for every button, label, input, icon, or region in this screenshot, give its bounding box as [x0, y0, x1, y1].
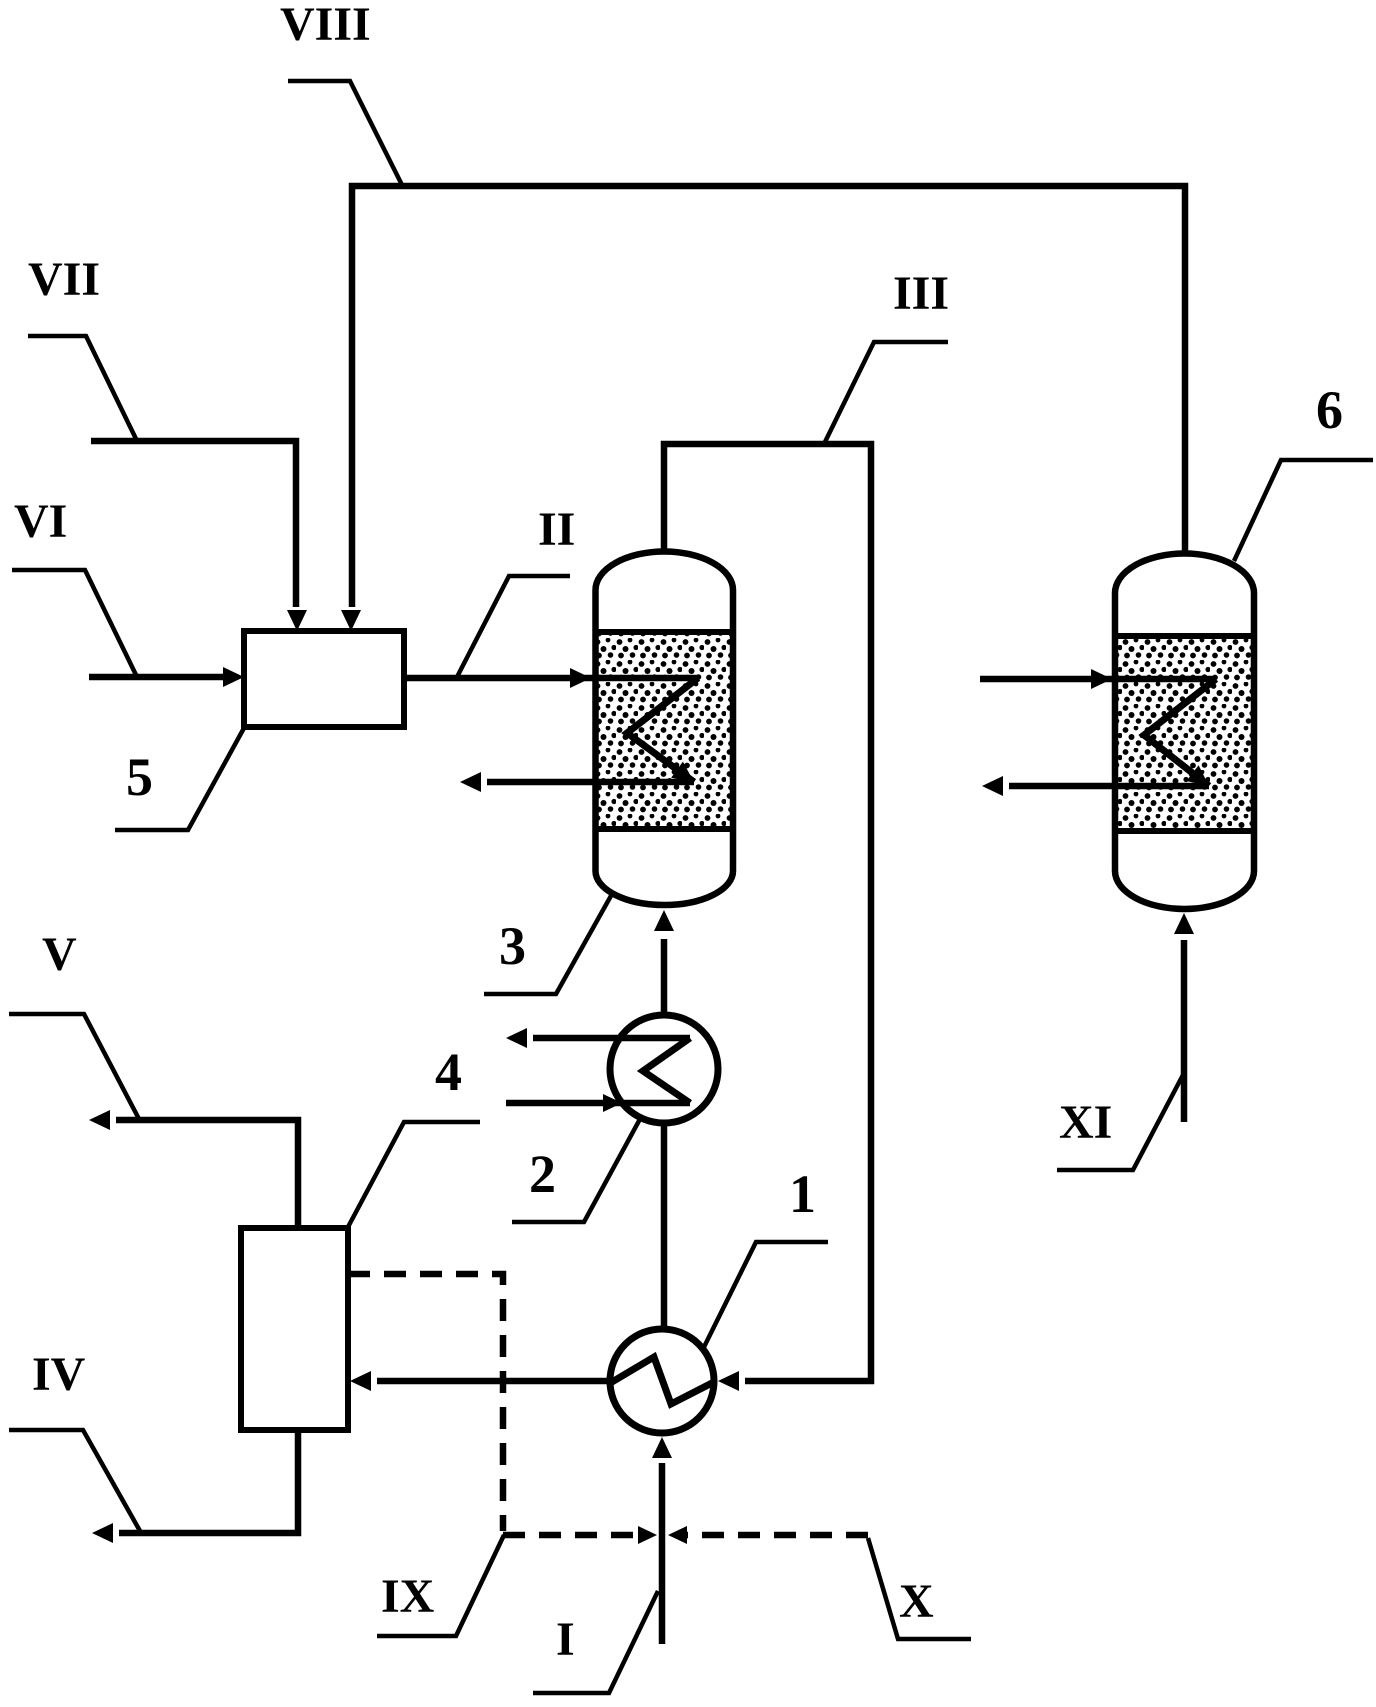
svg-text:VI: VI: [14, 495, 67, 548]
wire II mixer to reactor3: [404, 675, 698, 682]
wire X dashed arrow segment: [686, 1532, 868, 1539]
leader II: [457, 576, 570, 677]
leader 1: [704, 1242, 828, 1347]
arrow VI into box5: [223, 667, 244, 687]
arrow I feed up into HX1: [652, 1437, 672, 1458]
arrow reactor3 outlet left: [460, 772, 481, 792]
svg-text:VII: VII: [28, 253, 100, 306]
wire reactor3 outlet: [487, 779, 694, 786]
reactor U6 vessel: [1115, 554, 1254, 909]
svg-text:4: 4: [435, 1042, 462, 1102]
leader IV: [9, 1430, 140, 1531]
svg-text:IX: IX: [381, 1570, 435, 1623]
svg-text:III: III: [893, 267, 949, 320]
wire IV bottoms line from box4: [119, 1430, 298, 1533]
svg-text:6: 6: [1316, 380, 1343, 440]
arrow HX2 inlet right: [603, 1094, 622, 1112]
svg-text:2: 2: [529, 1144, 556, 1204]
wire VI feed arrow line: [89, 674, 224, 681]
wire III reactor3 top to HX1: [664, 444, 871, 1381]
reactor U3 catalyst bed: [598, 635, 730, 826]
arrow IX dashed right: [638, 1526, 657, 1544]
leader 5: [115, 728, 244, 830]
leader VIII: [288, 81, 402, 185]
reactor U3 internal zigzag: [627, 678, 698, 782]
svg-text:3: 3: [499, 916, 526, 976]
arrow into box4: [350, 1371, 371, 1391]
wire IX dashed arrow segment: [503, 1532, 640, 1539]
arrow reactor3 bottom feed up: [654, 910, 674, 931]
leader 6: [1234, 460, 1373, 561]
wire VII feed line: [91, 441, 296, 607]
wire HX2 bottom inlet: [506, 1100, 690, 1107]
heat exchanger 2: [610, 1015, 718, 1123]
leader 2: [512, 1119, 640, 1222]
arrow VII into box5: [287, 610, 307, 631]
leader VII: [28, 336, 137, 441]
arrow HX2 outlet left: [506, 1028, 527, 1048]
arrow reactor6 outlet left: [982, 776, 1003, 796]
svg-text:XI: XI: [1059, 1096, 1112, 1149]
arrow X dashed left: [668, 1526, 687, 1544]
svg-text:I: I: [556, 1613, 575, 1666]
svg-text:X: X: [899, 1575, 934, 1628]
leader III: [824, 342, 948, 444]
leader X: [868, 1538, 971, 1639]
arrow reactor6 inlet: [1091, 669, 1112, 689]
arrow XI feed up into reactor6: [1174, 913, 1194, 934]
reactor U3 vessel: [596, 552, 734, 906]
wire HX2 top outlet: [533, 1035, 690, 1042]
leader 4: [348, 1122, 480, 1227]
svg-text:1: 1: [789, 1164, 816, 1224]
svg-text:VIII: VIII: [280, 0, 371, 51]
wire IX dashed line from box4: [348, 1274, 503, 1531]
leader XI: [1057, 1073, 1184, 1170]
svg-text:II: II: [538, 503, 575, 556]
wire HX2 to HX1: [661, 1123, 668, 1330]
arrow into HX1 from line III: [718, 1371, 739, 1391]
separator box 4: [241, 1228, 348, 1430]
arrow reactor3 zigzag end: [671, 762, 700, 791]
arrow II into reactor3: [570, 668, 591, 688]
leader IX: [377, 1535, 504, 1636]
svg-text:IV: IV: [32, 1348, 86, 1401]
arrow V left: [89, 1110, 110, 1130]
leader V: [9, 1014, 139, 1119]
leader VI: [12, 570, 137, 677]
leader I: [533, 1591, 658, 1693]
mixer box 5: [244, 631, 404, 727]
wire reactor6 inlet: [980, 676, 1216, 683]
reactor U6 internal zigzag: [1144, 679, 1216, 786]
reactor U6 catalyst bed: [1118, 639, 1251, 828]
svg-text:V: V: [42, 928, 77, 981]
wire reactor6 outlet: [1009, 783, 1209, 790]
wire HX1 to box4: [377, 1378, 611, 1385]
svg-text:5: 5: [126, 747, 153, 807]
wire XI feed to reactor6: [1181, 940, 1188, 1122]
arrow IV left: [92, 1523, 113, 1543]
wire reactor3 bottom feed: [661, 939, 668, 1016]
arrowheads: [89, 610, 1215, 1544]
wire I feed to HX1: [659, 1463, 666, 1644]
wire VIII top recycle line: [352, 186, 1185, 607]
leader 3: [484, 894, 612, 994]
wire V overhead line from box4: [116, 1120, 298, 1228]
arrow VIII into box5: [341, 610, 361, 631]
heat exchanger 1: [610, 1329, 714, 1433]
arrow reactor6 zigzag end: [1186, 765, 1215, 794]
